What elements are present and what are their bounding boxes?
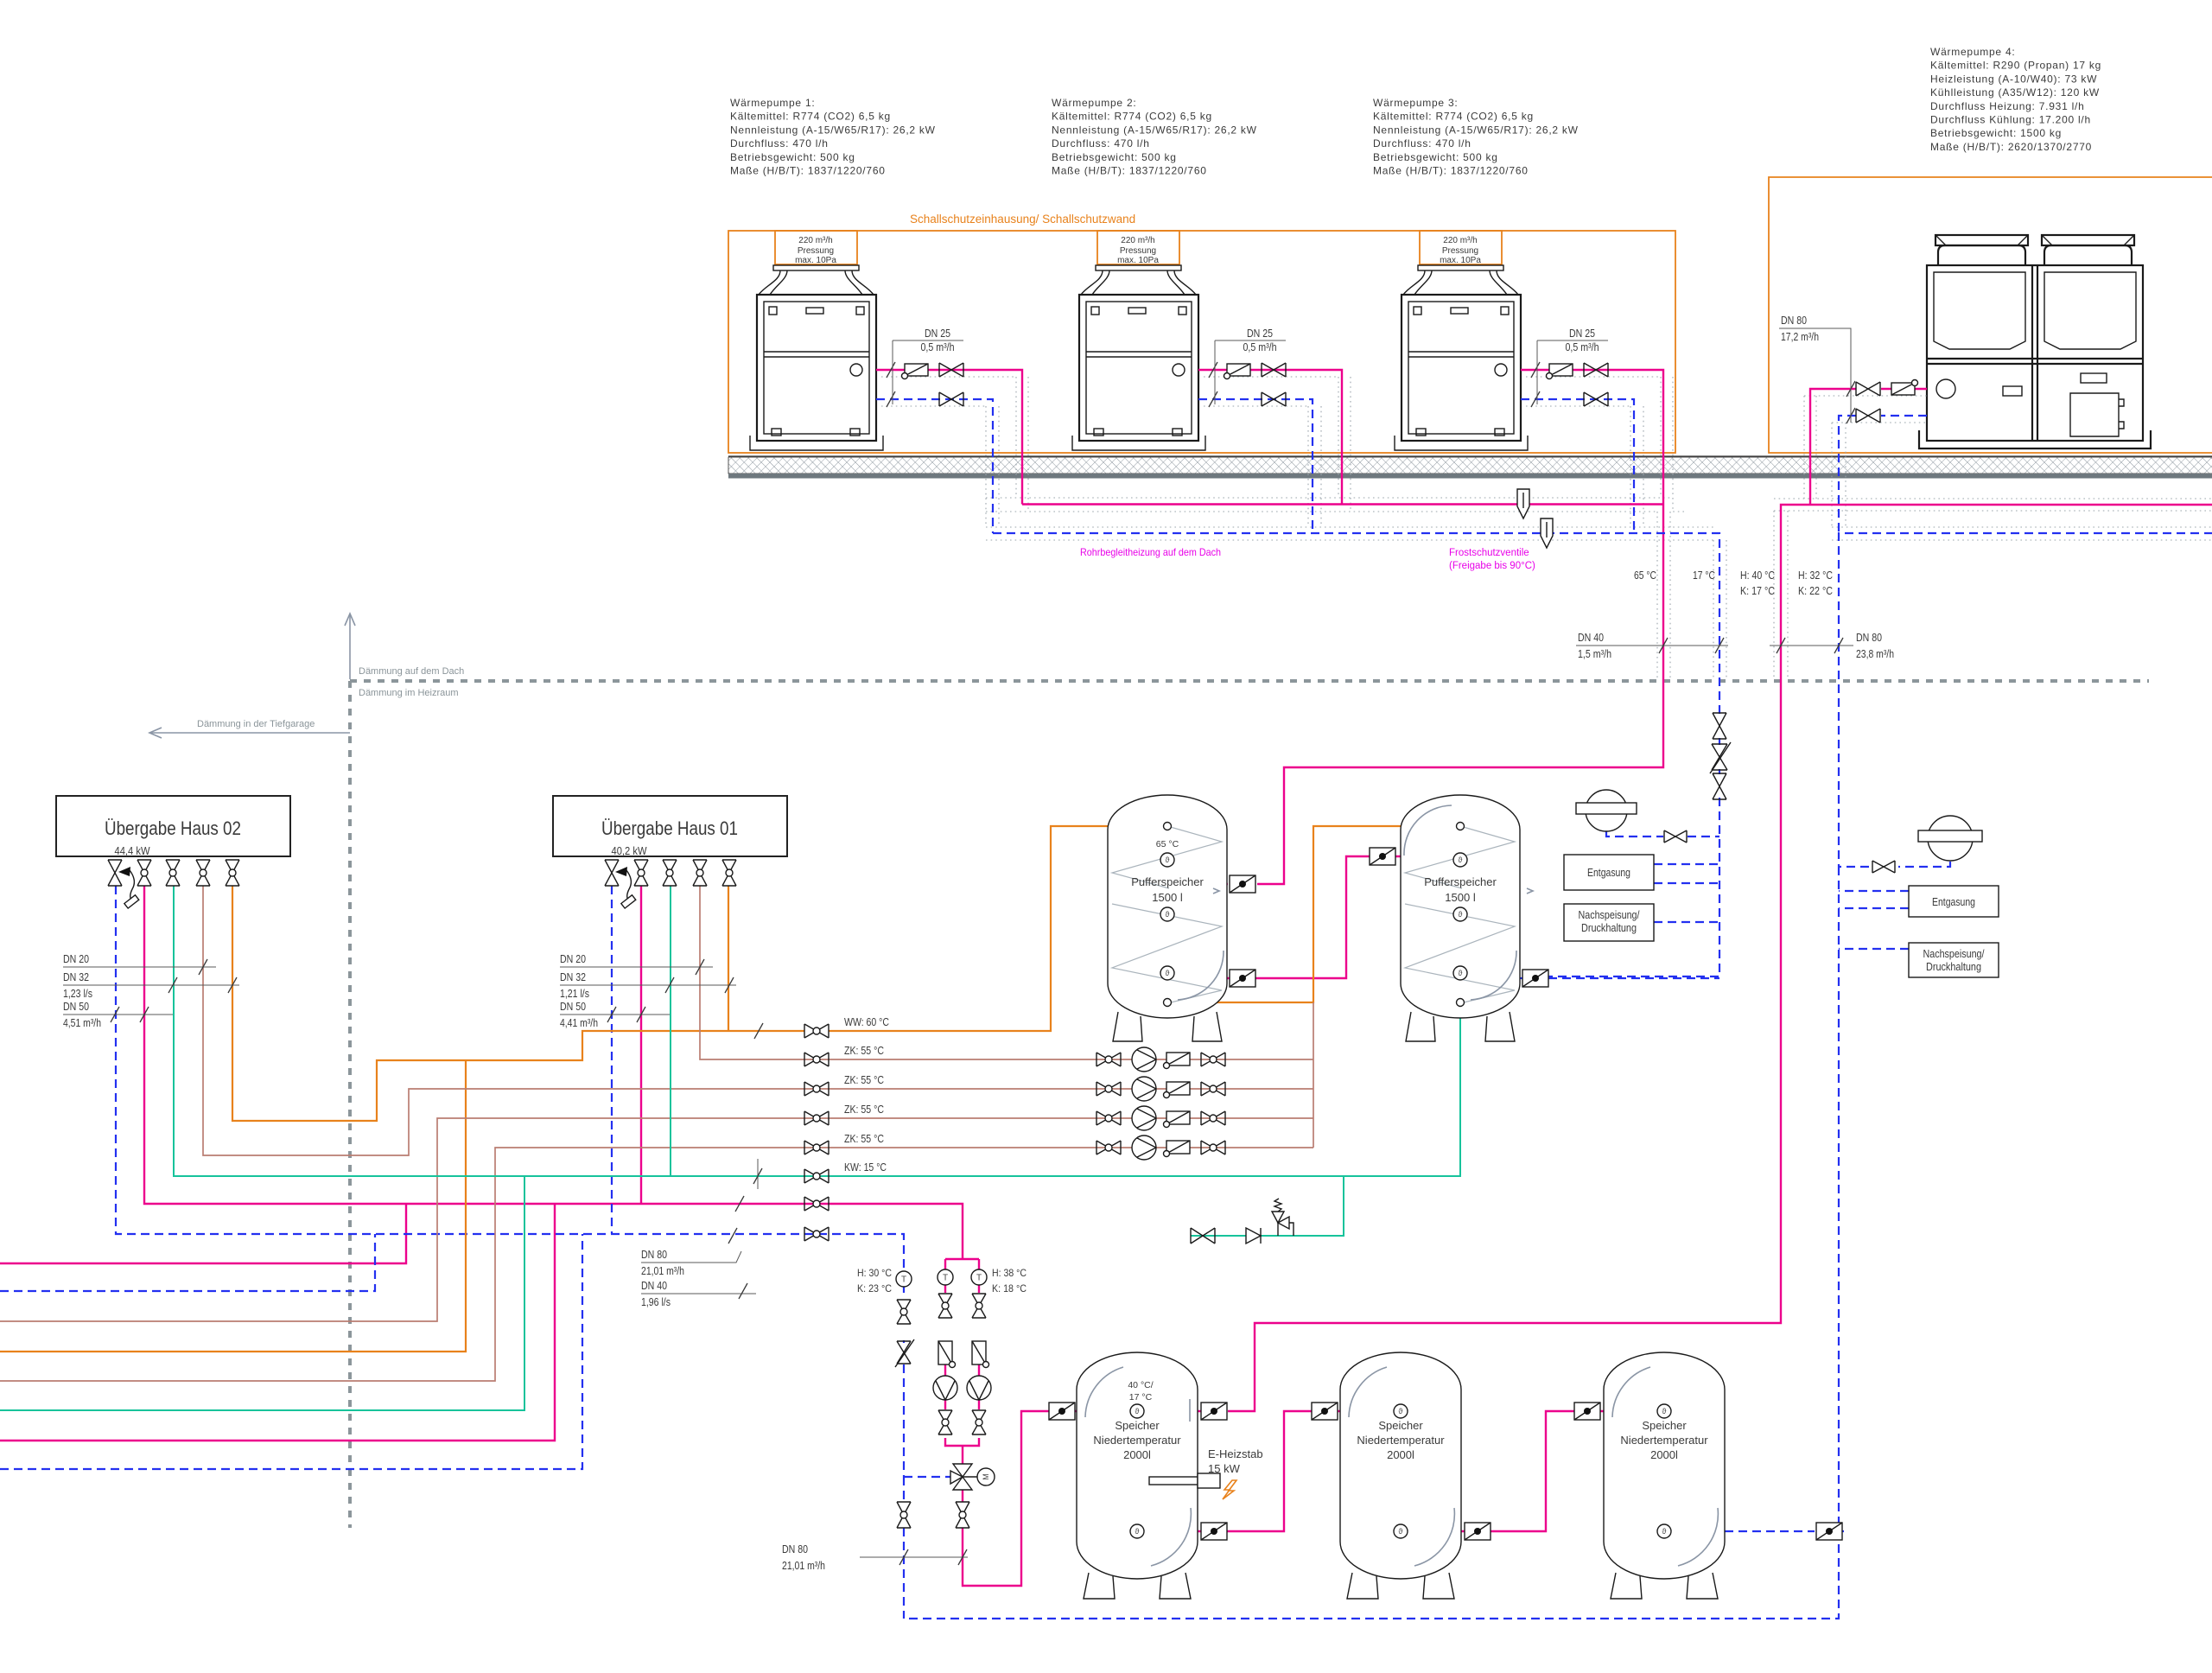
tick WW xyxy=(754,1023,763,1039)
leader DN25 WP3 xyxy=(1537,328,1608,404)
strainer WP3 supply xyxy=(1547,364,1573,379)
svg-text:1,21 l/s: 1,21 l/s xyxy=(560,988,589,1000)
leader DN20 133 xyxy=(63,953,216,975)
insulation boundary dashed horizontal xyxy=(350,679,2149,683)
heat pump unit WP4 xyxy=(1919,235,2151,448)
valve distribution y1428 xyxy=(804,1227,829,1241)
safety relief valve KW xyxy=(1272,1199,1294,1236)
heat pump unit WP2 xyxy=(1072,231,1205,450)
svg-text:1500 l: 1500 l xyxy=(1152,891,1183,904)
tick supply WP2 xyxy=(1209,362,1217,378)
svg-text:ϑ: ϑ xyxy=(1399,1407,1403,1415)
sensor buffer1 mid xyxy=(1160,907,1174,921)
check valve ZK y1294 xyxy=(1164,1111,1191,1128)
wire: ZK collector riser xyxy=(1313,1002,1314,1148)
svg-text:DN 32: DN 32 xyxy=(63,971,89,983)
wire: pink garage feed 2 xyxy=(0,1204,555,1441)
svg-text:ZK: 55 °C: ZK: 55 °C xyxy=(844,1074,884,1086)
svg-text:220 m³/h: 220 m³/h xyxy=(1121,236,1154,245)
storage tank Speicher 2 xyxy=(1340,1352,1461,1599)
trace heating dotted outline roof header return xyxy=(986,527,2212,540)
valve WP3 return xyxy=(1584,392,1608,406)
svg-text:Speicher: Speicher xyxy=(1115,1419,1160,1432)
svg-text:DN 40: DN 40 xyxy=(641,1280,667,1292)
sensor T branch right xyxy=(971,1269,987,1285)
svg-text:Entgasung: Entgasung xyxy=(1932,895,1975,908)
wire: blue Nachspeisung stub left xyxy=(1654,921,1719,923)
svg-text:Niedertemperatur: Niedertemperatur xyxy=(1620,1434,1708,1447)
svg-text:ϑ: ϑ xyxy=(1662,1527,1667,1536)
leader DN40 garage xyxy=(641,1280,756,1308)
svg-text:Übergabe Haus 02: Übergabe Haus 02 xyxy=(105,817,241,839)
svg-text:Pressung: Pressung xyxy=(1120,246,1156,256)
svg-text:ϑ: ϑ xyxy=(1459,910,1463,919)
svg-text:Wärmepumpe 4:: Wärmepumpe 4: xyxy=(1930,46,2015,58)
buffer tank Pufferspeicher 1 xyxy=(1108,795,1227,1041)
leader DN32 133 xyxy=(63,971,239,1000)
tick KW xyxy=(753,1168,762,1184)
tick blue xyxy=(899,1549,908,1565)
svg-text:Pufferspeicher: Pufferspeicher xyxy=(1424,875,1497,888)
valve air vent column 2 xyxy=(1713,773,1726,799)
valve distribution y1226 xyxy=(804,1053,829,1066)
svg-text:ϑ: ϑ xyxy=(1166,910,1170,919)
svg-text:17,2 m³/h: 17,2 m³/h xyxy=(1781,331,1819,343)
svg-text:Nennleistung (A-15/W65/R17): 2: Nennleistung (A-15/W65/R17): 26,2 kW xyxy=(1052,124,1257,136)
tick supply WP1 xyxy=(887,362,895,378)
wire: orange WW to buffer tank1 xyxy=(829,826,1163,1031)
svg-text:Kältemittel: R774 (CO2) 6,5 kg: Kältemittel: R774 (CO2) 6,5 kg xyxy=(1373,111,1534,123)
svg-text:ϑ: ϑ xyxy=(1166,856,1170,864)
valve Haus01 line 3 xyxy=(663,860,677,886)
leader DN80 risers xyxy=(1770,632,1894,660)
svg-text:2000l: 2000l xyxy=(1123,1448,1151,1461)
svg-text:Entgasung: Entgasung xyxy=(1587,866,1630,879)
valve distribution y1361 xyxy=(804,1169,829,1183)
pump ZK y1294 xyxy=(1132,1106,1156,1130)
pump ZK y1226 xyxy=(1132,1047,1156,1072)
tick xyxy=(199,959,207,975)
svg-text:E-Heizstab: E-Heizstab xyxy=(1208,1447,1263,1460)
svg-text:Durchfluss Heizung: 7.931 l/h: Durchfluss Heizung: 7.931 l/h xyxy=(1930,100,2085,112)
strainer WP2 supply xyxy=(1224,364,1251,379)
svg-text:23,8 m³/h: 23,8 m³/h xyxy=(1856,648,1894,660)
leader DN25 WP2 xyxy=(1215,328,1286,404)
valve ZK pump-in y1328 xyxy=(1096,1141,1121,1155)
transfer box &#220;bergabe Haus 02 xyxy=(56,796,290,857)
wire: pink Haus01 riser xyxy=(640,886,642,1204)
wire: ZK3 line from garage xyxy=(0,1118,1313,1321)
svg-text:4,51 m³/h: 4,51 m³/h xyxy=(63,1017,101,1029)
valve distribution y1193 xyxy=(804,1024,829,1038)
leader DN80 WP4 xyxy=(1779,315,1851,423)
leader DN80 bottom xyxy=(782,1543,968,1572)
wire: pink below mixing valve to speicher tank1 xyxy=(963,1411,1078,1586)
svg-text:Kältemittel: R290 (Propan) 17: Kältemittel: R290 (Propan) 17 kg xyxy=(1930,60,2101,72)
tick DN40 pink xyxy=(1659,638,1668,653)
svg-text:max. 10Pa: max. 10Pa xyxy=(1440,256,1481,265)
svg-text:0,5 m³/h: 0,5 m³/h xyxy=(921,341,955,353)
svg-text:ZK: 55 °C: ZK: 55 °C xyxy=(844,1133,884,1145)
svg-text:2000l: 2000l xyxy=(1650,1448,1678,1461)
box Entgasung left xyxy=(1564,855,1654,890)
svg-text:K: 17 °C: K: 17 °C xyxy=(1740,585,1775,597)
wire: pink into speicher tank1 upper valve xyxy=(1198,1410,1226,1412)
trace heating dotted outline WP2 risers xyxy=(1204,377,1351,527)
tick DN80 blue xyxy=(1834,638,1843,653)
svg-text:M: M xyxy=(982,1473,990,1480)
leader DN50 708 xyxy=(560,1001,670,1029)
sensor speicher2 top xyxy=(1394,1404,1408,1418)
valve branch left bottom xyxy=(938,1410,952,1434)
svg-text:DN 25: DN 25 xyxy=(1569,328,1595,340)
valve distribution y1393 xyxy=(804,1197,829,1211)
box Nachspeisung left xyxy=(1564,904,1654,941)
motor valve speicher1 out xyxy=(1049,1403,1075,1420)
valve air vent column 1 xyxy=(1713,713,1726,739)
svg-text:DN 20: DN 20 xyxy=(560,953,586,965)
svg-text:Betriebsgewicht: 500 kg: Betriebsgewicht: 500 kg xyxy=(1052,151,1177,163)
valve Haus02 line 5 xyxy=(226,860,239,886)
svg-text:DN 80: DN 80 xyxy=(782,1543,808,1555)
wire: pink supply WP2 to header xyxy=(1198,370,1342,505)
wire: orange WW Haus01 riser xyxy=(728,886,729,1031)
storage tank Speicher 3 xyxy=(1604,1352,1725,1599)
motor valve speicher3 low xyxy=(1816,1523,1842,1540)
svg-text:Nennleistung (A-15/W65/R17): 2: Nennleistung (A-15/W65/R17): 26,2 kW xyxy=(1373,124,1579,136)
svg-text:Heizleistung (A-10/W40): 73 kW: Heizleistung (A-10/W40): 73 kW xyxy=(1930,73,2097,85)
motor valve speicher1 low xyxy=(1201,1523,1227,1540)
valve Haus01 line 5 xyxy=(722,860,736,886)
valve ZK pump-in y1294 xyxy=(1096,1111,1121,1125)
tick return WP1 xyxy=(887,391,895,407)
filter branch left xyxy=(938,1341,956,1368)
leader DN80 garage xyxy=(641,1228,741,1277)
valve Haus02 line 1 xyxy=(108,860,122,886)
svg-text:1,5 m³/h: 1,5 m³/h xyxy=(1578,648,1611,660)
svg-text:DN 25: DN 25 xyxy=(1247,328,1273,340)
svg-text:Maße (H/B/T): 1837/1220/760: Maße (H/B/T): 1837/1220/760 xyxy=(1373,165,1529,177)
svg-text:(Freigabe bis 90°C): (Freigabe bis 90°C) xyxy=(1449,561,1535,571)
svg-text:Druckhaltung: Druckhaltung xyxy=(1926,960,1981,973)
tick blue garage xyxy=(739,1283,747,1299)
sound enclosure box 2 (WP4) xyxy=(1769,177,2212,453)
wire: pink supply WP1 to header xyxy=(876,370,1022,505)
tick xyxy=(111,1007,119,1022)
svg-text:Durchfluss: 470 l/h: Durchfluss: 470 l/h xyxy=(730,137,829,149)
wire: orange WW from Haus02 xyxy=(232,886,804,1121)
svg-text:Durchfluss: 470 l/h: Durchfluss: 470 l/h xyxy=(1373,137,1471,149)
wire: blue equipment column left xyxy=(1548,738,1719,976)
wire: pink garage feed 1 xyxy=(0,1204,406,1263)
valve WP1 supply xyxy=(939,363,963,377)
actuator sensor Haus02 xyxy=(118,867,139,908)
wire: blue mixing column xyxy=(904,1287,950,1619)
svg-text:Niedertemperatur: Niedertemperatur xyxy=(1093,1434,1181,1447)
svg-text:15 kW: 15 kW xyxy=(1208,1462,1241,1475)
valve supply column bottom xyxy=(956,1502,969,1528)
svg-text:KW: 15 °C: KW: 15 °C xyxy=(844,1161,887,1174)
valve branch left top xyxy=(938,1294,952,1318)
svg-text:DN 20: DN 20 xyxy=(63,953,89,965)
svg-text:K: 22 °C: K: 22 °C xyxy=(1798,585,1833,597)
leader DN40 risers xyxy=(1576,632,1728,660)
wire: pink WP4 supply stub xyxy=(1810,389,1927,505)
filter branch right xyxy=(972,1341,989,1368)
svg-text:T: T xyxy=(901,1275,906,1285)
storage tank Speicher 1 xyxy=(1077,1352,1198,1599)
svg-text:40 °C/: 40 °C/ xyxy=(1128,1380,1153,1390)
svg-text:0,5 m³/h: 0,5 m³/h xyxy=(1243,341,1277,353)
strainer WP4 supply xyxy=(1891,380,1918,396)
svg-text:ϑ: ϑ xyxy=(1459,969,1463,977)
pump ZK y1260 xyxy=(1132,1077,1156,1101)
sensor T branch left xyxy=(938,1269,953,1285)
motor valve buffer2 out xyxy=(1522,970,1548,987)
wire: blue WP4 return xyxy=(1839,416,1927,533)
svg-text:Dämmung im Heizraum: Dämmung im Heizraum xyxy=(359,688,459,698)
valve WP3 supply xyxy=(1584,363,1608,377)
svg-text:K: 23 °C: K: 23 °C xyxy=(857,1282,892,1295)
wire: blue distribution return line xyxy=(116,886,904,1271)
heat pump unit WP3 xyxy=(1395,231,1528,450)
wire: pink supply WP3 to header xyxy=(1521,370,1663,505)
valve Haus02 line 4 xyxy=(196,860,210,886)
wire: blue Haus01 return riser xyxy=(611,886,613,1234)
spec text block Waermepumpe 3 xyxy=(1373,97,1579,177)
svg-text:Wärmepumpe 1:: Wärmepumpe 1: xyxy=(730,97,815,109)
wire: blue MAG connection right xyxy=(1839,862,1950,867)
wire: orange buffer cascade tank1-bottom to tank2-top xyxy=(1170,826,1456,1002)
sensor buffer2 top xyxy=(1453,853,1467,867)
wire: pink buffer tank1 lower to tank2 upper xyxy=(1227,856,1401,978)
valve ZK pump-out y1260 xyxy=(1201,1082,1225,1096)
wire: ZK4 line from garage xyxy=(0,1148,1313,1381)
leader DN20 708 xyxy=(560,953,713,975)
pump branch right xyxy=(967,1376,991,1400)
valve branch right top xyxy=(972,1294,986,1318)
wire: ZK1 line xyxy=(700,886,1313,1059)
expansion vessel MAG left xyxy=(1576,790,1637,831)
valve Haus02 line 2 xyxy=(137,860,151,886)
svg-text:1500 l: 1500 l xyxy=(1445,891,1476,904)
valve Haus01 line 1 xyxy=(605,860,619,886)
arrow up roof insulation xyxy=(345,614,355,679)
tick xyxy=(140,1007,149,1022)
svg-text:4,41 m³/h: 4,41 m³/h xyxy=(560,1017,598,1029)
valve ZK pump-out y1226 xyxy=(1201,1053,1225,1066)
insulation boundary dashed vertical xyxy=(348,681,352,1528)
svg-text:DN 40: DN 40 xyxy=(1578,632,1604,644)
tick xyxy=(725,977,734,993)
svg-text:ϑ: ϑ xyxy=(1166,969,1170,977)
wire: pink roof header right (WP4) xyxy=(1228,505,2212,1411)
motor valve buffer1 out xyxy=(1230,970,1255,987)
svg-text:Übergabe Haus 01: Übergabe Haus 01 xyxy=(601,817,738,839)
svg-text:Dämmung auf dem Dach: Dämmung auf dem Dach xyxy=(359,666,464,677)
wire: blue roof return header xyxy=(993,533,1719,715)
wire: blue Entgasung stubs right xyxy=(1839,891,1909,908)
wire: blue Nachspeisung stub right xyxy=(1839,948,1909,950)
valve ZK pump-out y1294 xyxy=(1201,1111,1225,1125)
tick xyxy=(168,977,177,993)
svg-text:K: 18 °C: K: 18 °C xyxy=(992,1282,1027,1295)
motor valve speicher2 in xyxy=(1312,1403,1338,1420)
svg-text:WW: 60 °C: WW: 60 °C xyxy=(844,1016,889,1028)
svg-text:T: T xyxy=(976,1274,982,1283)
svg-text:ZK: 55 °C: ZK: 55 °C xyxy=(844,1045,884,1057)
svg-text:65 °C: 65 °C xyxy=(1634,569,1656,582)
tick WP4 return xyxy=(1847,408,1855,423)
tick xyxy=(665,977,674,993)
tick DN40 blue xyxy=(1715,638,1724,653)
sensor speicher1 low xyxy=(1130,1524,1144,1538)
svg-text:ZK: 55 °C: ZK: 55 °C xyxy=(844,1104,884,1116)
svg-text:Pressung: Pressung xyxy=(798,246,834,256)
svg-text:Durchfluss Kühlung: 17.200 l/h: Durchfluss Kühlung: 17.200 l/h xyxy=(1930,114,2091,126)
tick DN80 pink xyxy=(1777,638,1785,653)
svg-text:H: 38 °C: H: 38 °C xyxy=(992,1267,1027,1279)
wire: blue MAG connection left xyxy=(1606,831,1719,836)
tick pink distribution xyxy=(735,1196,744,1212)
svg-text:40,2 kW: 40,2 kW xyxy=(612,844,648,857)
frost protection valve on return header xyxy=(1541,518,1553,548)
svg-text:Dämmung in der Tiefgarage: Dämmung in der Tiefgarage xyxy=(197,719,315,729)
valve return column top xyxy=(897,1300,911,1324)
wire: KW Haus01 riser xyxy=(670,886,671,1176)
svg-text:0,5 m³/h: 0,5 m³/h xyxy=(1566,341,1599,353)
wire: pink distribution line heating supply xyxy=(144,886,963,1259)
svg-text:ϑ: ϑ xyxy=(1459,856,1463,864)
svg-text:DN 80: DN 80 xyxy=(641,1249,667,1261)
tick return WP3 xyxy=(1531,391,1540,407)
svg-text:Nachspeisung/: Nachspeisung/ xyxy=(1923,947,1985,960)
svg-text:DN 80: DN 80 xyxy=(1781,315,1807,327)
valve distribution y1294 xyxy=(804,1111,829,1125)
sensor T return xyxy=(896,1271,912,1287)
spec text block Waermepumpe 4 xyxy=(1930,46,2101,153)
svg-text:Speicher: Speicher xyxy=(1642,1419,1687,1432)
svg-text:1,96 l/s: 1,96 l/s xyxy=(641,1296,671,1308)
sensor speicher1 top xyxy=(1130,1404,1144,1418)
wire: pink mixing group branches xyxy=(945,1259,979,1269)
tick return WP2 xyxy=(1209,391,1217,407)
svg-text:Maße (H/B/T): 1837/1220/760: Maße (H/B/T): 1837/1220/760 xyxy=(730,165,886,177)
spec text block Waermepumpe 1 xyxy=(730,97,936,177)
svg-text:ϑ: ϑ xyxy=(1135,1527,1140,1536)
sensor buffer1 top xyxy=(1160,853,1174,867)
trace heating dotted outline roof header supply xyxy=(986,498,2212,512)
expansion vessel MAG right xyxy=(1918,816,1982,861)
wire: blue roof header right xyxy=(904,533,2212,1619)
three-way mixing valve xyxy=(950,1464,995,1490)
valve KW inlet xyxy=(1191,1228,1215,1244)
valve ZK pump-in y1226 xyxy=(1096,1053,1121,1066)
svg-text:Nachspeisung/: Nachspeisung/ xyxy=(1579,908,1640,921)
svg-text:ϑ: ϑ xyxy=(1135,1407,1140,1415)
svg-text:DN 25: DN 25 xyxy=(925,328,950,340)
leader DN32 708 xyxy=(560,971,736,1000)
svg-text:ϑ: ϑ xyxy=(1399,1527,1403,1536)
check valve ZK y1328 xyxy=(1164,1141,1191,1157)
wire: pink buffer tank1 upper valve stub xyxy=(1227,883,1228,885)
tick WP4 supply xyxy=(1847,381,1855,397)
valve distribution y1260 xyxy=(804,1082,829,1096)
valve WP2 return xyxy=(1262,392,1286,406)
svg-text:17 °C: 17 °C xyxy=(1693,569,1715,582)
svg-text:DN 80: DN 80 xyxy=(1856,632,1882,644)
svg-text:Maße (H/B/T): 2620/1370/2770: Maße (H/B/T): 2620/1370/2770 xyxy=(1930,141,2092,153)
svg-text:17 °C: 17 °C xyxy=(1129,1392,1153,1403)
sound enclosure box 1 (WP1-WP3) xyxy=(728,231,1675,453)
valve ZK pump-out y1328 xyxy=(1201,1141,1225,1155)
svg-text:Betriebsgewicht: 500 kg: Betriebsgewicht: 500 kg xyxy=(730,151,855,163)
svg-text:1,23 l/s: 1,23 l/s xyxy=(63,988,92,1000)
tick xyxy=(637,1007,645,1022)
box Entgasung right xyxy=(1909,886,1999,917)
wire: KW line xyxy=(174,886,1460,1176)
wire: pink roof header WP1-3 xyxy=(1022,503,1663,505)
svg-text:Kältemittel: R774 (CO2) 6,5 kg: Kältemittel: R774 (CO2) 6,5 kg xyxy=(1052,111,1212,123)
svg-text:44,4 kW: 44,4 kW xyxy=(115,844,151,857)
wire: KW safety group branch xyxy=(1191,1176,1344,1236)
svg-text:Speicher: Speicher xyxy=(1378,1419,1423,1432)
trace heating dotted outline WP3 risers xyxy=(1526,377,1673,527)
strainer WP1 supply xyxy=(902,364,929,379)
svg-text:Schallschutzeinhausung/ Schall: Schallschutzeinhausung/ Schallschutzwand xyxy=(910,213,1135,226)
svg-text:220 m³/h: 220 m³/h xyxy=(1443,236,1477,245)
wire: pink drop WP3 header to buffer feed xyxy=(1257,505,1663,885)
sensor buffer1 low xyxy=(1160,966,1174,980)
svg-text:Pufferspeicher: Pufferspeicher xyxy=(1131,875,1204,888)
tick blue distribution xyxy=(728,1228,737,1244)
roof slab with insulation hatch xyxy=(728,456,2212,479)
svg-text:Rohrbegleitheizung auf dem Dac: Rohrbegleitheizung auf dem Dach xyxy=(1080,546,1221,558)
wire: pink speicher cascade t1-t2 xyxy=(1198,1411,1340,1531)
E-Heizstab electric heater xyxy=(1149,1447,1263,1499)
check valve ZK y1226 xyxy=(1164,1053,1191,1069)
svg-text:H: 32 °C: H: 32 °C xyxy=(1798,569,1833,582)
svg-text:DN 32: DN 32 xyxy=(560,971,586,983)
valve WP4 supply xyxy=(1856,382,1880,396)
tick KW pipe size xyxy=(757,1159,759,1189)
wire: pink speicher cascade t2-t3 xyxy=(1461,1411,1604,1531)
valve WP1 return xyxy=(939,392,963,406)
svg-text:220 m³/h: 220 m³/h xyxy=(798,236,832,245)
motor valve speicher2 low xyxy=(1465,1523,1491,1540)
svg-text:ϑ: ϑ xyxy=(1662,1407,1667,1415)
sensor buffer2 low xyxy=(1453,966,1467,980)
motor valve buffer2 in xyxy=(1370,848,1395,865)
dotted measurement guides 65/17 C xyxy=(1657,512,1726,679)
svg-text:21,01 m³/h: 21,01 m³/h xyxy=(641,1265,684,1277)
wire: ZK2 line from Haus02 xyxy=(203,886,1313,1155)
svg-text:Wärmepumpe 3:: Wärmepumpe 3: xyxy=(1373,97,1458,109)
wire: blue return WP1 to header xyxy=(876,399,993,533)
heat pump unit WP1 xyxy=(750,231,883,450)
valve WP2 supply xyxy=(1262,363,1286,377)
frost protection valve on supply header xyxy=(1517,489,1529,518)
valve return column bottom xyxy=(897,1502,911,1528)
wire: KW garage feed xyxy=(0,1176,524,1410)
valve MAG left xyxy=(1664,830,1687,843)
svg-text:Durchfluss: 470 l/h: Durchfluss: 470 l/h xyxy=(1052,137,1150,149)
sensor speicher3 top xyxy=(1657,1404,1671,1418)
check valve ZK y1260 xyxy=(1164,1082,1191,1098)
sensor speicher2 low xyxy=(1394,1524,1408,1538)
svg-text:Maße (H/B/T): 1837/1220/760: Maße (H/B/T): 1837/1220/760 xyxy=(1052,165,1207,177)
tick xyxy=(228,977,237,993)
